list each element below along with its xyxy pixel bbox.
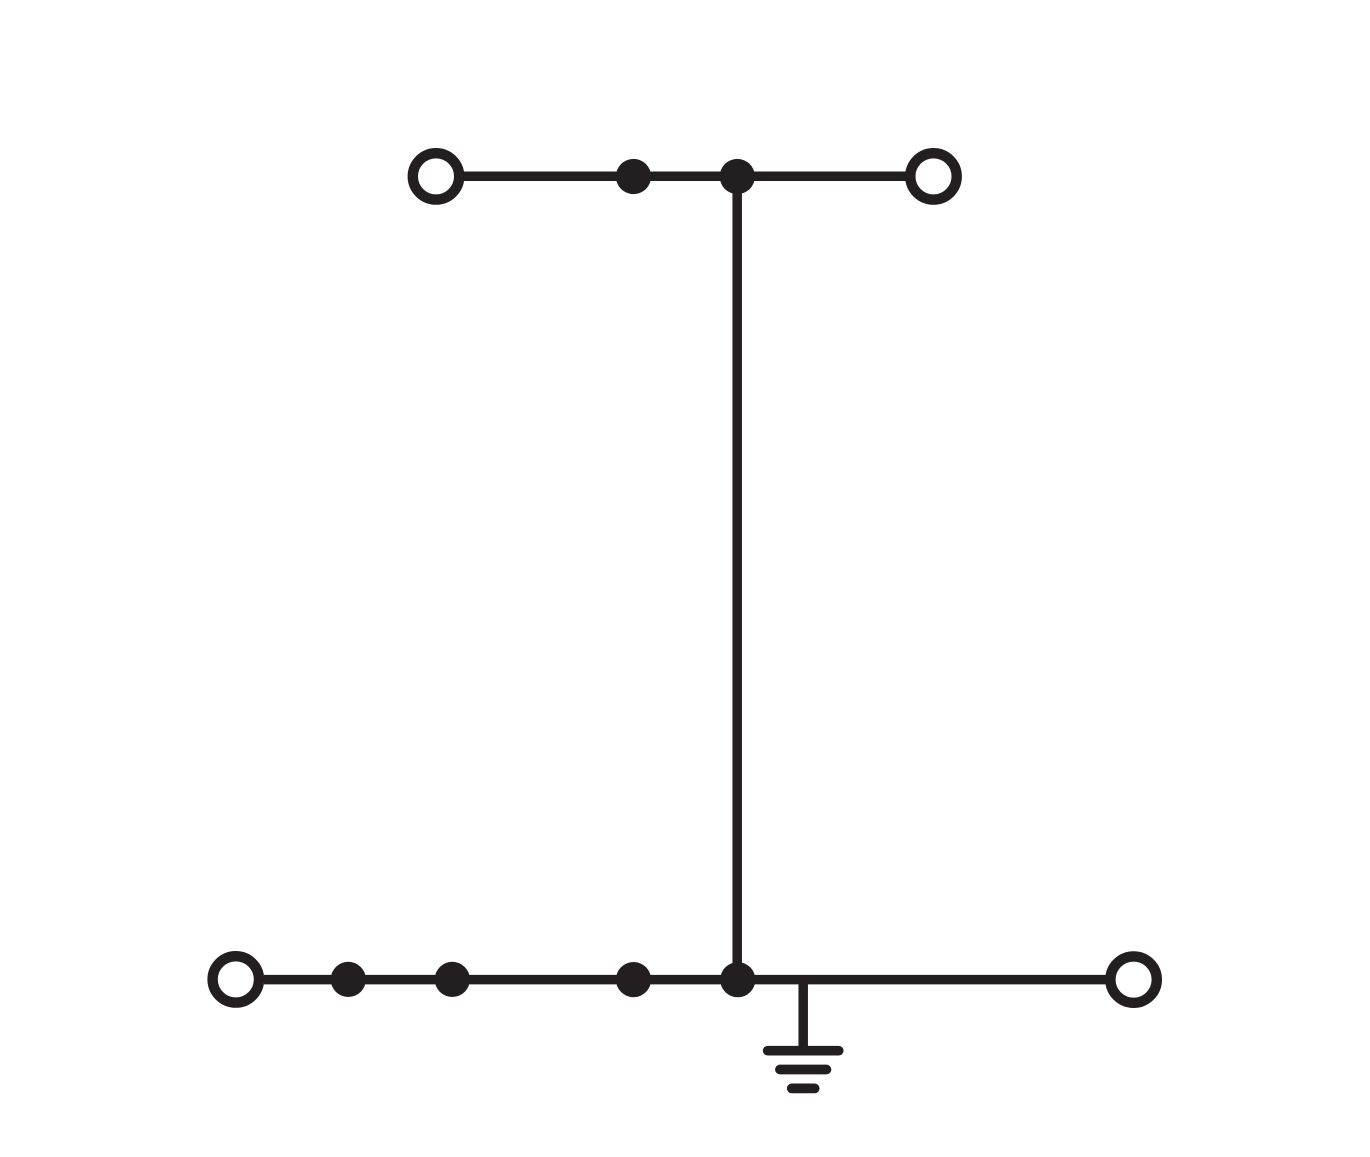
wire: top rail horizontal bbox=[463, 172, 906, 182]
ground: earth symbol bar 2 (middle) bbox=[780, 1065, 827, 1075]
terminal circle: top-left clamp point bbox=[413, 153, 459, 199]
node: bottom rail tap dot 1 bbox=[331, 962, 366, 997]
ground: earth symbol bar 3 (short) bbox=[792, 1084, 815, 1094]
node: bottom rail tap dot 3 bbox=[616, 962, 651, 997]
terminal circle: bottom-right clamp point bbox=[1110, 956, 1156, 1002]
terminal circle: top-right clamp point bbox=[910, 153, 956, 199]
node: top rail tap dot bbox=[616, 159, 651, 194]
wire: bottom rail horizontal bbox=[264, 975, 1106, 985]
node: bottom rail junction dot with vertical link bbox=[720, 962, 755, 997]
node: top rail junction dot with vertical link bbox=[720, 159, 755, 194]
ground: earth symbol bar 1 (long) bbox=[768, 1046, 839, 1056]
node: bottom rail tap dot 2 bbox=[435, 962, 470, 997]
terminal circle: bottom-left clamp point bbox=[213, 956, 259, 1002]
wire: vertical link from top rail junction to bottom rail bbox=[732, 176, 742, 979]
wire: ground stub from bottom rail bbox=[798, 980, 808, 1051]
